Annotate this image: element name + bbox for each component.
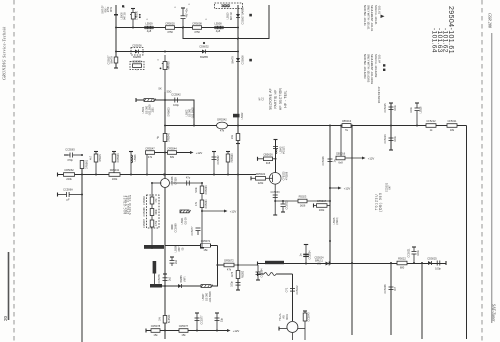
svg-text:2n2: 2n2 (169, 276, 172, 281)
node variant dot B (249, 59, 252, 62)
wire: bus x=164 (164, 92, 166, 339)
svg-text:100n: 100n (410, 107, 413, 113)
capacitor CC5563 (64, 154, 68, 156)
resistor CR5020 (166, 26, 175, 30)
svg-text:-101.60/-63/-64: -101.60/-63/-64 (377, 86, 380, 104)
wire: L5541 input line y=100 (136, 99, 165, 101)
label AGC-STUFE (123, 194, 131, 214)
node +12V feed (190, 151, 194, 154)
resistor DR5033 below rail (236, 134, 240, 141)
coil L5502 labels (186, 107, 195, 119)
svg-text:DR5040: DR5040 (168, 132, 171, 142)
right margin dashed fold line (481, 0, 483, 342)
node +12V bottom (227, 329, 231, 332)
wire: main IF rail y=125.5 (165, 125, 467, 127)
svg-text:STADIO CAG: STADIO CAG (129, 194, 132, 214)
inductor L5509 (145, 26, 154, 29)
capacitor CC5262 column (213, 152, 215, 175)
svg-text:100n: 100n (417, 250, 420, 256)
svg-text:CC5013: CC5013 (384, 134, 387, 144)
resistor CR5078 (151, 329, 160, 333)
coil L5541 (135, 98, 137, 102)
wire: bus x=238 (237, 5, 239, 265)
resistor DR5561 on bias bus (80, 161, 84, 169)
resistor R5022 (397, 261, 407, 265)
wire: x=422 lower bus (421, 263, 423, 339)
inductor L5508 (215, 26, 224, 29)
svg-text:CR5030: CR5030 (135, 10, 138, 20)
svg-text:68k: 68k (170, 155, 175, 159)
asterisk marks (123, 3, 232, 22)
svg-text:CD5507 BA885: CD5507 BA885 (242, 7, 245, 25)
capacitor CB5626 (264, 157, 273, 161)
resistor CR5077 (179, 329, 188, 333)
wire: input bus x=116 (115, 5, 117, 68)
svg-text:DR5603: DR5603 (168, 107, 171, 117)
svg-text:CC5262: CC5262 (217, 155, 220, 165)
resistor CR5008 (193, 26, 202, 30)
svg-text:(MF): (MF) (184, 276, 187, 281)
note block NUR BEI -101.61 (363, 5, 381, 32)
svg-text:-101.61: -101.61 (377, 5, 381, 15)
svg-text:SEULEMENT -101.61: SEULEMENT -101.61 (370, 5, 374, 32)
capacitor CC5033 (273, 194, 278, 196)
svg-text:680: 680 (400, 266, 405, 270)
svg-text:BL5530: BL5530 (168, 314, 171, 323)
svg-text:9n8: 9n8 (266, 161, 271, 165)
resistor R5382 (236, 271, 240, 279)
resistor R5023 (275, 200, 298, 202)
svg-text:CR5062: CR5062 (64, 168, 74, 172)
svg-text:MHz: MHz (110, 6, 113, 12)
svg-text:100n: 100n (394, 136, 397, 142)
svg-text:(M): (M) (317, 263, 321, 266)
label T0123U (375, 192, 383, 212)
diode CD5025 (428, 261, 432, 265)
svg-text:CB5013: CB5013 (342, 119, 352, 123)
capacitor CC5026 on mixer bus (328, 158, 333, 160)
svg-text:4k75: 4k75 (231, 271, 234, 277)
wire bar links (153, 274, 155, 285)
left binding bar (8, 252, 10, 320)
svg-text:100p: 100p (231, 281, 234, 287)
capacitor CC5034 (305, 245, 307, 264)
svg-text:SK: SK (158, 87, 162, 91)
capacitor CC5542 (174, 98, 176, 103)
svg-text:CC5040: CC5040 (308, 312, 311, 322)
resistor BL5530 on emitter bus (163, 316, 167, 324)
svg-text:HF - TEIL: HF - TEIL (284, 90, 288, 107)
svg-text:CC5077: CC5077 (191, 226, 194, 236)
svg-text:R5382: R5382 (242, 270, 245, 278)
svg-text:CR5547: CR5547 (145, 146, 155, 150)
svg-text:047: 047 (394, 286, 397, 291)
capacitor CC5036 (389, 286, 394, 288)
svg-text:CC5042: CC5042 (296, 285, 299, 295)
svg-text:220k: 220k (66, 177, 72, 181)
capacitor CC5382 (236, 282, 241, 284)
resistor DR5040 on bus x=164 (163, 134, 167, 142)
svg-text:+12V: +12V (368, 157, 375, 161)
svg-text:18k: 18k (450, 128, 455, 132)
node SAT-ZF input label (102, 5, 113, 14)
svg-text:BA479: BA479 (111, 56, 114, 64)
svg-text:CD5530: CD5530 (132, 60, 142, 64)
wire: decoupling bus x=391 (390, 103, 392, 150)
svg-text:DR5533: DR5533 (117, 153, 120, 163)
svg-text:-101.64: -101.64 (377, 54, 381, 64)
svg-text:CC5036: CC5036 (384, 284, 387, 294)
resistor DR5063 (201, 183, 203, 248)
capacitor CC5384 (257, 265, 259, 272)
svg-text:BA479: BA479 (232, 56, 235, 64)
capacitor CC5377 column (196, 313, 198, 331)
svg-text:CD6032: CD6032 (199, 45, 209, 49)
diode CD5086 (178, 284, 182, 288)
svg-text:(4940): (4940) (336, 217, 339, 224)
node SK test point (158, 87, 171, 94)
transformer core bar3 (150, 284, 162, 288)
left margin dashed fold line (13, 0, 15, 342)
svg-text:-101.5508: -101.5508 (209, 291, 212, 303)
svg-text:CF339: CF339 (175, 177, 178, 185)
svg-text:NUR BEI -101.61: NUR BEI -101.61 (363, 5, 367, 26)
resistor DR5603 on bus (168, 107, 171, 117)
diode CD5536 (131, 48, 143, 56)
svg-text:L5508: L5508 (214, 22, 222, 26)
svg-text:4750: 4750 (167, 30, 173, 34)
capacitor CC5042 (290, 288, 295, 290)
node +12V mixer (330, 187, 338, 189)
svg-text:R5545: R5545 (99, 154, 102, 162)
resistor DR5341 on AGC row (109, 173, 120, 177)
svg-text:+12V: +12V (196, 151, 203, 155)
svg-text:CC5377: CC5377 (201, 315, 204, 325)
wire: mf line y=286 (150, 285, 217, 287)
capacitor CC5069 (171, 225, 173, 230)
svg-text:15k: 15k (181, 333, 186, 337)
svg-text:CF5011: CF5011 (447, 119, 457, 123)
svg-text:4750: 4750 (194, 30, 200, 34)
wire: bottom row y=330 (146, 330, 227, 332)
svg-text:CR5067: CR5067 (143, 218, 146, 228)
svg-text:-101.64: -101.64 (431, 28, 438, 53)
svg-text:R5023: R5023 (299, 195, 307, 199)
wire: rail y=51.5 (116, 51, 238, 53)
wire: mixer bus x=320 (329, 126, 331, 264)
svg-text:CR5066: CR5066 (143, 207, 146, 217)
svg-text:+12V: +12V (344, 187, 351, 191)
filter CF5036 (164, 55, 166, 93)
svg-text:47k: 47k (220, 129, 225, 133)
svg-text:GSR 200: GSR 200 (488, 13, 493, 29)
transformer core bar1 (144, 245, 164, 249)
svg-text:SEULEMENT -101.62/63: SEULEMENT -101.62/63 (370, 54, 374, 84)
svg-text:PARTIE HF: PARTIE HF (274, 89, 278, 108)
svg-text:CD5506: CD5506 (242, 55, 245, 65)
svg-text:R5022: R5022 (398, 257, 406, 261)
svg-text:CF5212: CF5212 (426, 119, 436, 123)
svg-text:CD5536: CD5536 (132, 44, 142, 48)
svg-text:100n: 100n (394, 105, 397, 111)
svg-text:220k: 220k (258, 181, 264, 185)
wire: agc col x=275.5 (275, 140, 277, 173)
ferrite bead CB5013 on rail (342, 124, 351, 128)
svg-text:µF: µF (66, 198, 69, 202)
resistor CF5212 (426, 124, 436, 128)
capacitor CC5076 (163, 277, 168, 279)
filter DR5342 (217, 122, 228, 129)
svg-text:L5541: L5541 (142, 106, 145, 113)
svg-text:*: * (136, 69, 137, 73)
svg-text:DR5022: DR5022 (256, 172, 266, 176)
diode CD5024 (315, 257, 325, 266)
svg-text:CC5026: CC5026 (322, 156, 325, 166)
svg-text:+12V: +12V (233, 329, 240, 333)
svg-text:CB5626: CB5626 (263, 153, 273, 157)
capacitor C5063 47p (171, 182, 203, 184)
capacitor 4n7 feed (182, 8, 184, 16)
wire: AGC row A y=152 (147, 152, 190, 154)
svg-text:4n7 40n: 4n7 40n (186, 8, 189, 17)
coil L5533 column (130, 152, 132, 175)
svg-text:100k: 100k (319, 208, 325, 212)
right page edge rule (491, 33, 493, 323)
filter CR5030 (132, 9, 134, 28)
capacitor CC5021 stub (413, 254, 415, 263)
svg-text:100k: 100k (112, 177, 118, 181)
wire: osc branch x=290 (292, 274, 294, 321)
svg-text:ONLY WITH -101.62/63: ONLY WITH -101.62/63 (367, 54, 371, 83)
svg-text:ONLY WITH -101.61: ONLY WITH -101.61 (367, 5, 371, 30)
diode CD5507 (236, 14, 240, 17)
svg-text:HD5530: HD5530 (231, 153, 234, 163)
transistor CT5066 (161, 179, 170, 188)
svg-text:DR5063: DR5063 (205, 185, 208, 195)
resistor DR5533 column (113, 152, 115, 175)
resistor CF5011 (447, 124, 457, 128)
diode CD6032 (202, 50, 206, 54)
svg-text:CC5542: CC5542 (171, 93, 181, 97)
svg-text:10p: 10p (221, 317, 224, 322)
svg-text:BA885: BA885 (133, 55, 141, 59)
capacitor CC506A (57, 193, 59, 197)
svg-text:CC5033: CC5033 (271, 191, 281, 194)
svg-text:947.05: 947.05 (124, 12, 127, 20)
svg-text:330k: 330k (155, 209, 158, 215)
svg-text:-101.5508: -101.5508 (192, 107, 195, 119)
svg-text:CC5563: CC5563 (65, 148, 75, 152)
svg-text:100p: 100p (173, 103, 179, 107)
svg-text:CC5034: CC5034 (309, 250, 312, 260)
svg-text:L5022: L5022 (241, 112, 244, 119)
svg-text:6n8: 6n8 (338, 161, 343, 165)
svg-text:CC5021: CC5021 (408, 248, 411, 258)
svg-text:CC5069: CC5069 (175, 223, 178, 233)
transistor T5042 (287, 322, 298, 333)
wire: top rail y=27 (116, 27, 238, 29)
capacitor CC5013 (389, 137, 394, 139)
svg-text:CC5076: CC5076 (158, 274, 161, 284)
coil L5536 labels (175, 245, 185, 252)
wire: AGC row B y=174 (57, 174, 256, 176)
svg-text:CC5384: CC5384 (261, 268, 264, 278)
svg-text:DR5341: DR5341 (110, 168, 120, 172)
svg-text:SOLO A -101.61: SOLO A -101.61 (374, 5, 378, 25)
capacitor CC5015 (389, 106, 394, 108)
resistor CR5547 (146, 153, 148, 175)
svg-text:GRUNDIG Service-Technik: GRUNDIG Service-Technik (2, 26, 7, 80)
resistor R5042 (298, 328, 305, 330)
resistor DR5064 (200, 200, 204, 208)
transformer L5546 primary bar (265, 261, 284, 264)
svg-text:SEZIONE AF: SEZIONE AF (269, 88, 273, 110)
svg-text:CR5071: CR5071 (201, 239, 211, 243)
svg-text:47p: 47p (186, 176, 191, 180)
svg-text:GS 09: GS 09 (185, 217, 188, 225)
label HF-TEIL (259, 87, 288, 110)
node output terminal (445, 261, 447, 265)
svg-text:NUR BEI -101.62/63: NUR BEI -101.62/63 (363, 54, 367, 79)
svg-text:CD5025: CD5025 (427, 257, 437, 261)
svg-text:47k: 47k (227, 268, 232, 272)
svg-text:15k: 15k (203, 248, 208, 252)
coil L5534 (180, 210, 189, 213)
svg-text:CC5015: CC5015 (384, 103, 387, 113)
resistor HD5530 column (227, 152, 229, 175)
svg-text:CR5544: CR5544 (167, 146, 177, 150)
svg-text:CF1: CF1 (286, 287, 289, 292)
wire: CR5071 to DR5072 (216, 246, 218, 287)
diode CD5530 variant (130, 62, 144, 70)
svg-text:CR5077: CR5077 (179, 324, 189, 328)
svg-text:47k: 47k (148, 155, 153, 159)
resistor chain CR5064 CR5066 CR5067 (151, 183, 153, 245)
svg-text:4µ8: 4µ8 (147, 29, 152, 33)
svg-text:4µ8: 4µ8 (216, 29, 221, 33)
coil L5543 (273, 146, 278, 148)
resistor CR5062 (57, 173, 59, 177)
svg-text:540k: 540k (195, 187, 198, 193)
svg-text:HF SECTION: HF SECTION (279, 87, 283, 110)
wire: left bias bus x=82 (81, 160, 83, 342)
svg-text:SAT-Tuner: SAT-Tuner (492, 304, 497, 322)
svg-text:DR5342: DR5342 (217, 118, 227, 122)
wire: right bus x=466.5 (466, 126, 468, 340)
wire: sec line y=277 (258, 273, 265, 275)
svg-text:CR5078: CR5078 (151, 324, 161, 328)
svg-text:9001: 9001 (286, 314, 289, 320)
diode CD5506 BA479 (236, 58, 240, 61)
svg-text:4k7: 4k7 (90, 155, 93, 160)
svg-text:CB5016: CB5016 (336, 152, 346, 156)
junction dots output line (351, 262, 353, 264)
transistor CF5023 (269, 173, 281, 185)
note block NUR BEI -101.62/63/64 (363, 54, 381, 84)
svg-text:CC5023: CC5023 (286, 200, 289, 210)
resistor DR5022 (256, 177, 266, 181)
coil L5537 (201, 285, 211, 288)
chassis variant list 29504-101.61 ... (431, 6, 455, 54)
wire: osc bus x=391 lower (390, 263, 392, 335)
svg-text:4T0509: 4T0509 (286, 171, 289, 180)
capacitor L5518 feed (416, 103, 418, 108)
resistor CR5071 (165, 245, 201, 247)
capacitor CC5075 column (216, 313, 218, 331)
svg-text:+12V: +12V (230, 210, 237, 214)
svg-text:DR5561: DR5561 (86, 159, 89, 169)
svg-text:CR5008: CR5008 (192, 21, 202, 25)
svg-text:CR5064: CR5064 (143, 195, 146, 205)
capacitor CC5023 (282, 201, 284, 204)
transformer core bar2 (153, 261, 157, 274)
node variant dot A (249, 14, 252, 17)
svg-text:L5533: L5533 (134, 154, 137, 161)
ferrite bead L5022 (233, 114, 240, 118)
transformer L5546 secondary squiggle (264, 273, 276, 276)
wire: CC5542 branch y=100 (165, 100, 194, 126)
svg-text:MHA05: MHA05 (167, 61, 170, 70)
svg-text:(43117): (43117) (283, 146, 286, 154)
svg-text:100p: 100p (435, 267, 441, 271)
svg-text:20: 20 (3, 315, 8, 321)
svg-text:1k56: 1k56 (300, 204, 306, 208)
resistor CR5544 (168, 151, 177, 155)
wire: R5382 col x=238 (237, 265, 239, 290)
wire: elbow x=269 y=38 (183, 5, 269, 39)
svg-text:SOLO A -101.62/63: SOLO A -101.62/63 (374, 54, 378, 78)
svg-text:15k: 15k (153, 333, 158, 337)
note rotated -101.60 (377, 86, 380, 104)
capacitor CB5016 branch (340, 126, 342, 159)
svg-text:BA885: BA885 (200, 55, 208, 59)
svg-text:DR5072: DR5072 (224, 259, 234, 263)
wire: centre bus x=352 (351, 126, 353, 336)
wire: output line y=263 (258, 263, 447, 265)
svg-text:CC506A: CC506A (63, 188, 73, 192)
coil L5510 variant dashed box (215, 3, 243, 9)
svg-text:L5518: L5518 (420, 106, 423, 113)
node +12V feed agc (202, 210, 224, 212)
svg-text:(DB) 080: (DB) 080 (379, 192, 383, 212)
resistor DR5072 (224, 263, 234, 267)
svg-text:470p: 470p (67, 158, 73, 162)
svg-text:DR5064: DR5064 (205, 199, 208, 209)
resistor R5545 column (95, 152, 97, 175)
svg-text:470k: 470k (155, 220, 158, 226)
diode CD5517 BA479 on input bus (114, 57, 118, 63)
svg-text:CZ: CZ (262, 97, 265, 101)
svg-text:CF5617: CF5617 (317, 199, 327, 203)
svg-text:L5509: L5509 (145, 22, 153, 26)
capacitor CC5025 (436, 261, 438, 266)
capacitor CC5074 (171, 257, 173, 261)
capacitor CC5077 (196, 227, 201, 229)
svg-text:047: 047 (389, 185, 392, 190)
capacitor CC5031 label (386, 182, 392, 192)
svg-text:1151: 1151 (152, 107, 155, 113)
svg-text:CR5020: CR5020 (165, 21, 175, 25)
svg-text:2n2: 2n2 (175, 259, 178, 264)
resistor CF5617 (317, 204, 328, 208)
